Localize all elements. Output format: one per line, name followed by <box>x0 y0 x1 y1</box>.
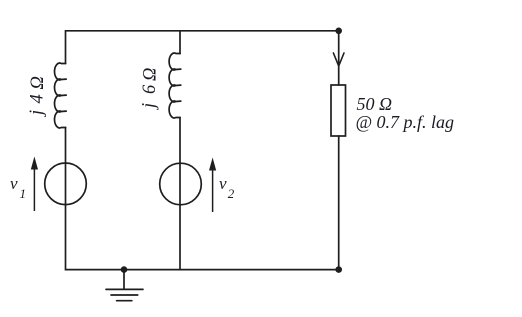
svg-text:@ 0.7 p.f. lag: @ 0.7 p.f. lag <box>356 112 455 132</box>
wire middle branch lower <box>179 118 181 270</box>
svg-text:4: 4 <box>28 94 48 103</box>
source V2 circle <box>160 163 202 205</box>
ground bar 2 <box>111 294 138 296</box>
wire top horizontal and left branch upper <box>66 31 339 64</box>
svg-text:j: j <box>27 110 47 117</box>
wire left branch lower and bottom horizontal <box>66 128 339 270</box>
node ground <box>121 266 128 273</box>
svg-text:6: 6 <box>140 84 160 94</box>
source V1 circle <box>45 163 87 205</box>
node top right <box>335 28 342 35</box>
wire middle branch upper <box>179 31 181 54</box>
ground stub wire <box>123 270 125 289</box>
svg-text:v: v <box>10 174 18 193</box>
svg-text:1: 1 <box>20 186 27 201</box>
svg-text:2: 2 <box>228 186 235 201</box>
inductor j4 <box>55 63 67 128</box>
inductor j6 <box>169 53 181 118</box>
resistor 50ohm box <box>331 85 346 136</box>
svg-text:j: j <box>140 103 160 110</box>
ground bar 1 <box>106 288 143 290</box>
svg-text:50 Ω: 50 Ω <box>357 94 393 114</box>
node bottom right <box>335 266 342 273</box>
svg-text:Ω: Ω <box>141 68 161 81</box>
arrow v2 <box>209 158 216 213</box>
current arrowhead down <box>333 53 344 66</box>
svg-text:Ω: Ω <box>28 76 48 89</box>
wire right branch lower <box>338 136 340 270</box>
arrow v1 <box>31 157 38 212</box>
ground bar 3 <box>117 300 132 302</box>
svg-text:v: v <box>219 174 227 193</box>
wire right branch upper <box>338 31 340 85</box>
